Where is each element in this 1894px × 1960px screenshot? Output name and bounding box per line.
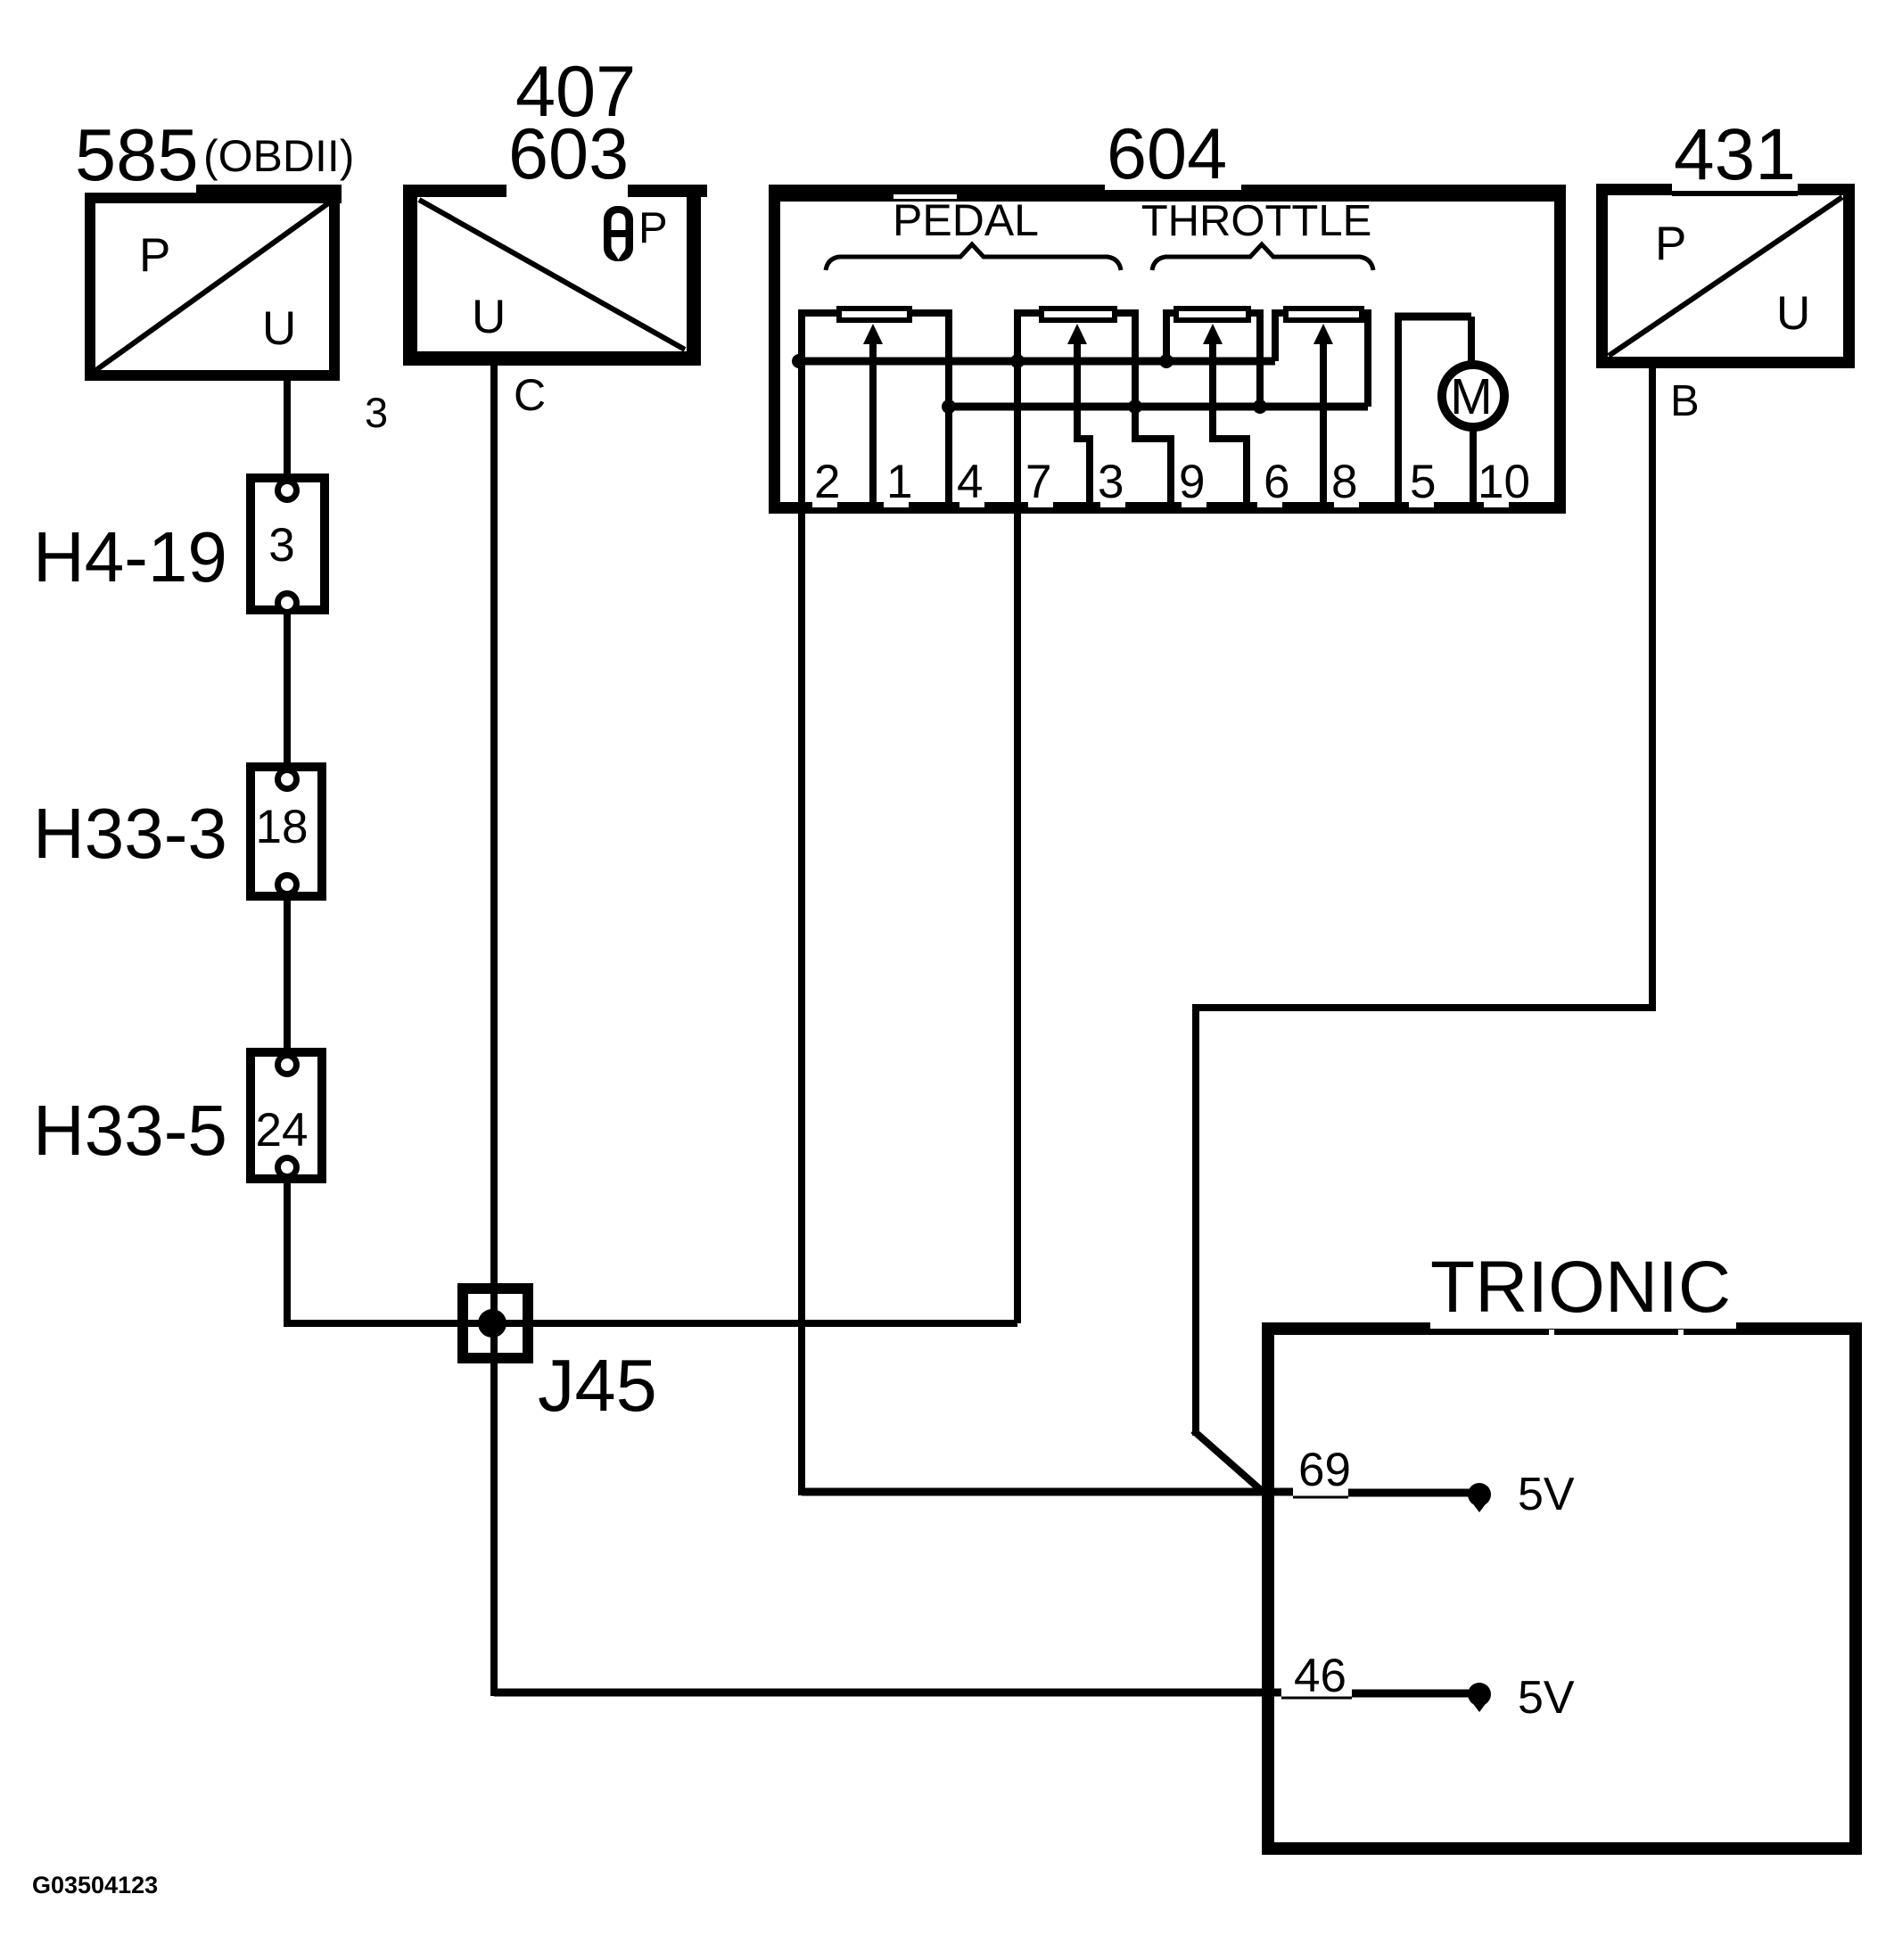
svg-text:7: 7 <box>1025 456 1051 508</box>
svg-text:2: 2 <box>814 456 840 508</box>
svg-text:PEDAL: PEDAL <box>893 195 1039 245</box>
svg-text:3: 3 <box>268 519 294 572</box>
svg-text:H33-5: H33-5 <box>33 1091 227 1170</box>
svg-text:3: 3 <box>1098 456 1124 508</box>
svg-text:1: 1 <box>886 456 912 508</box>
svg-text:P: P <box>638 204 668 252</box>
svg-text:5V: 5V <box>1518 1672 1575 1724</box>
svg-text:P: P <box>139 229 170 282</box>
svg-text:P: P <box>1655 218 1686 270</box>
svg-text:M: M <box>1450 368 1492 425</box>
svg-text:H4-19: H4-19 <box>33 517 227 597</box>
svg-text:H33-3: H33-3 <box>33 794 227 873</box>
svg-text:THROTTLE: THROTTLE <box>1141 197 1372 245</box>
svg-text:U: U <box>262 302 296 355</box>
svg-text:10: 10 <box>1478 456 1530 508</box>
svg-text:5V: 5V <box>1518 1469 1575 1520</box>
svg-text:431: 431 <box>1674 114 1796 195</box>
svg-text:(OBDII): (OBDII) <box>203 131 354 181</box>
svg-text:TRIONIC: TRIONIC <box>1430 1247 1731 1328</box>
svg-text:4: 4 <box>957 456 983 508</box>
svg-text:46: 46 <box>1294 1650 1346 1702</box>
svg-text:C: C <box>514 370 546 420</box>
svg-text:U: U <box>1776 287 1810 340</box>
svg-text:9: 9 <box>1179 456 1205 508</box>
svg-text:8: 8 <box>1331 456 1357 508</box>
svg-text:J45: J45 <box>538 1344 657 1427</box>
svg-text:B: B <box>1670 377 1700 425</box>
svg-text:G03504123: G03504123 <box>32 1872 158 1898</box>
svg-text:24: 24 <box>256 1104 309 1157</box>
svg-text:585: 585 <box>75 113 198 196</box>
svg-text:5: 5 <box>1410 456 1436 508</box>
svg-text:U: U <box>472 291 506 343</box>
svg-text:69: 69 <box>1298 1444 1351 1496</box>
svg-text:18: 18 <box>256 801 309 853</box>
svg-text:603: 603 <box>508 114 629 194</box>
svg-text:6: 6 <box>1264 456 1289 508</box>
svg-text:3: 3 <box>365 389 388 436</box>
svg-text:604: 604 <box>1107 114 1227 194</box>
